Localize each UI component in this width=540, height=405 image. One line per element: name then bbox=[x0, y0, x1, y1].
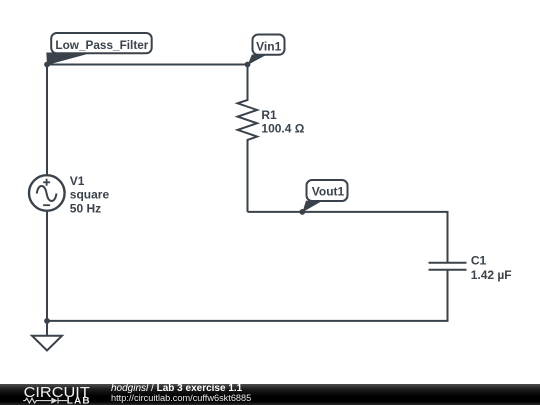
footer attribution text bbox=[111, 383, 242, 394]
svg-text:50 Hz: 50 Hz bbox=[70, 201, 101, 215]
svg-text:C1: C1 bbox=[471, 254, 487, 268]
node A dot (Low_Pass_Filter) bbox=[44, 62, 50, 68]
voltage source V1 bbox=[29, 175, 65, 211]
node Vin1 dot bbox=[245, 62, 251, 68]
V1 value labels bbox=[70, 174, 110, 216]
flag tail Vin1 bbox=[248, 55, 267, 66]
capacitor C1 plates bbox=[429, 262, 467, 264]
flag tail Vout1 bbox=[302, 201, 322, 212]
svg-text:V1: V1 bbox=[70, 174, 85, 188]
C1 value labels bbox=[471, 254, 512, 282]
svg-text:Low_Pass_Filter: Low_Pass_Filter bbox=[55, 38, 148, 52]
node flag Vout1 bbox=[307, 180, 348, 201]
svg-text:LAB: LAB bbox=[67, 396, 91, 405]
wire top: node A to Vin1 node bbox=[47, 64, 248, 66]
node flag Vin1 bbox=[253, 35, 285, 55]
svg-text:Vout1: Vout1 bbox=[312, 185, 345, 199]
node flag Low_Pass_Filter bbox=[51, 33, 152, 53]
svg-text:R1: R1 bbox=[261, 108, 277, 122]
ground bbox=[46, 321, 48, 336]
svg-text:1.42 µF: 1.42 µF bbox=[471, 268, 512, 282]
footer bar bbox=[0, 384, 540, 405]
svg-text:100.4 Ω: 100.4 Ω bbox=[261, 121, 304, 135]
flag tail Low_Pass_Filter bbox=[46, 53, 93, 66]
ground junction dot bbox=[44, 318, 50, 324]
svg-text:Vin1: Vin1 bbox=[256, 40, 281, 54]
resistor R1 bbox=[238, 65, 258, 212]
R1 value labels bbox=[261, 108, 304, 135]
CircuitLab logo bbox=[0, 384, 100, 405]
node Vout1 dot bbox=[299, 209, 305, 215]
wire left upper: node A to V1 top terminal bbox=[46, 65, 48, 176]
wire right lower and bottom: C1 bottom plate down and left to ground junction bbox=[47, 270, 448, 321]
wire left lower: V1 bottom terminal to ground junction bbox=[46, 211, 48, 321]
wire middle: R1 bottom to C1 branch, through Vout1 node, down to C1 top plate bbox=[248, 212, 448, 263]
svg-text:square: square bbox=[70, 187, 110, 201]
